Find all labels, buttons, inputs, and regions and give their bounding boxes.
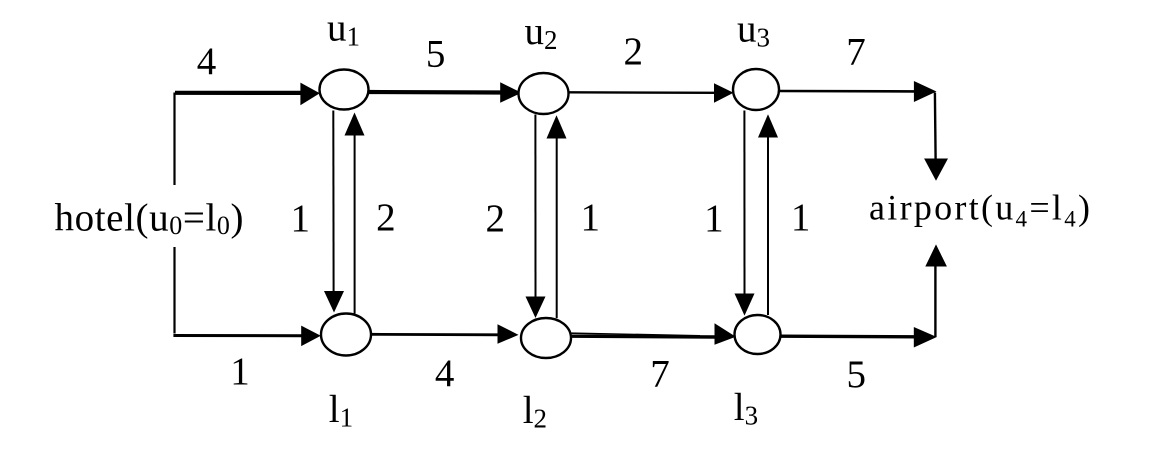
wire edge l2 to l3 (double stroke): [571, 323, 736, 344]
label u2: [525, 10, 558, 55]
wire edge u1 to u2: [369, 82, 522, 103]
svg-text:5: 5: [847, 353, 867, 396]
label weight 7 (l2 to l3): [650, 352, 670, 395]
svg-text:7: 7: [650, 352, 670, 395]
svg-text:4: 4: [197, 40, 217, 83]
label l1: [329, 388, 353, 433]
wire edge u1 down to l1: [324, 111, 344, 313]
wire hotel vertical line: [173, 93, 175, 334]
wire edge u2 down to l2: [526, 115, 546, 319]
label weight 1 (l2 to u2): [580, 196, 600, 239]
svg-text:4: 4: [435, 352, 455, 395]
label weight 2 (l1 to u1): [376, 196, 396, 239]
node l1: [321, 314, 371, 356]
wire airport bottom corner up arrow: [925, 244, 947, 337]
svg-text:1: 1: [580, 196, 600, 239]
wire edge u3 to airport corner: [779, 81, 937, 102]
label weight 1 (hotel to l1): [230, 350, 250, 393]
node u1: [320, 70, 369, 110]
svg-text:7: 7: [846, 31, 866, 74]
svg-text:2: 2: [624, 30, 644, 73]
svg-text:1: 1: [230, 350, 250, 393]
wire edge u3 down to l3: [735, 111, 755, 316]
wire edge l1 to l2: [371, 324, 519, 344]
label weight 2 (u2 to l2): [486, 197, 506, 240]
label weight 1 (u1 to l1): [291, 197, 311, 240]
svg-text:1: 1: [704, 197, 724, 240]
label weight 1 (l3 to u3): [791, 196, 811, 239]
label l2: [523, 389, 547, 434]
svg-text:5: 5: [426, 33, 446, 76]
label weight 7 (u3 to airport): [846, 31, 866, 74]
svg-text:hotel(u0=l0): hotel(u0=l0): [55, 197, 244, 241]
node l2: [521, 318, 571, 358]
wire edge l3 up to u3: [758, 114, 778, 315]
svg-text:2: 2: [376, 196, 396, 239]
wire edge hotel to l1 (bottom): [173, 326, 320, 347]
label u1: [327, 7, 360, 52]
svg-text:1: 1: [791, 196, 811, 239]
node l3: [735, 315, 781, 354]
label weight 4 (hotel to u1): [197, 40, 217, 83]
label weight 5 (l3 to airport): [847, 353, 867, 396]
label l3: [734, 386, 758, 431]
node u3: [733, 69, 779, 110]
wire edge u2 to u3: [569, 83, 734, 102]
label weight 2 (u2 to u3): [624, 30, 644, 73]
svg-text:1: 1: [291, 197, 311, 240]
node u2: [519, 73, 569, 114]
label weight 4 (l1 to l2): [435, 352, 455, 395]
label hotel(u0=l0): [54, 185, 246, 247]
wire edge l1 up to u1: [345, 113, 365, 314]
label u3: [737, 8, 770, 53]
wire edge l2 up to u2: [547, 115, 567, 318]
wire airport top corner down arrow: [924, 93, 948, 181]
wire edge l3 to airport corner: [781, 327, 937, 348]
label weight 1 (u3 to l3): [704, 197, 724, 240]
svg-text:2: 2: [486, 197, 506, 240]
wire edge hotel to u1 (top): [175, 83, 320, 106]
label airport(u4=l4): [869, 188, 1090, 232]
label weight 5 (u1 to u2): [426, 33, 446, 76]
